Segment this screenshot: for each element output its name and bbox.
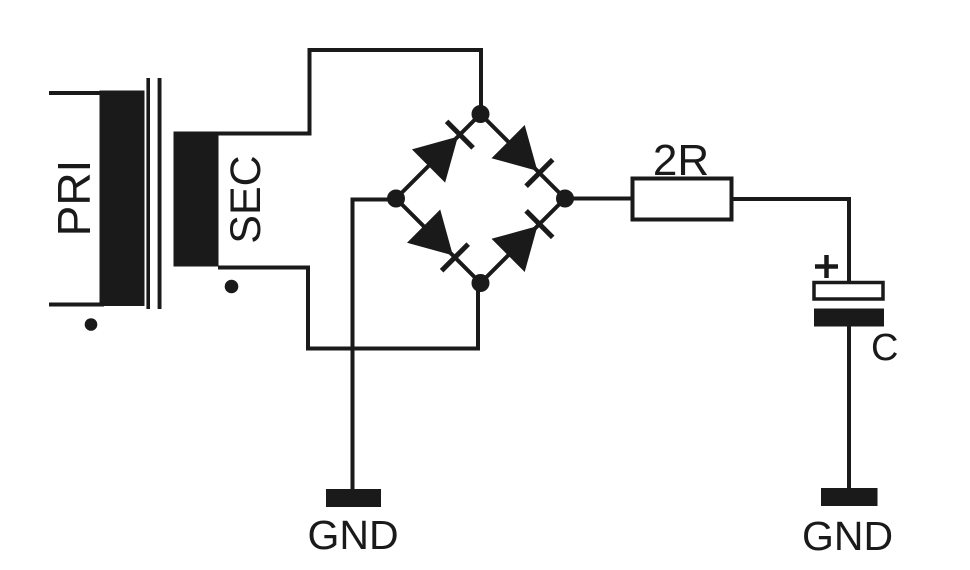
svg-text:2R: 2R: [653, 136, 709, 185]
svg-text:GND: GND: [802, 513, 893, 559]
svg-text:GND: GND: [307, 512, 398, 558]
svg-text:C: C: [871, 327, 898, 369]
svg-text:SEC: SEC: [222, 155, 270, 243]
svg-text:PRI: PRI: [48, 160, 100, 237]
